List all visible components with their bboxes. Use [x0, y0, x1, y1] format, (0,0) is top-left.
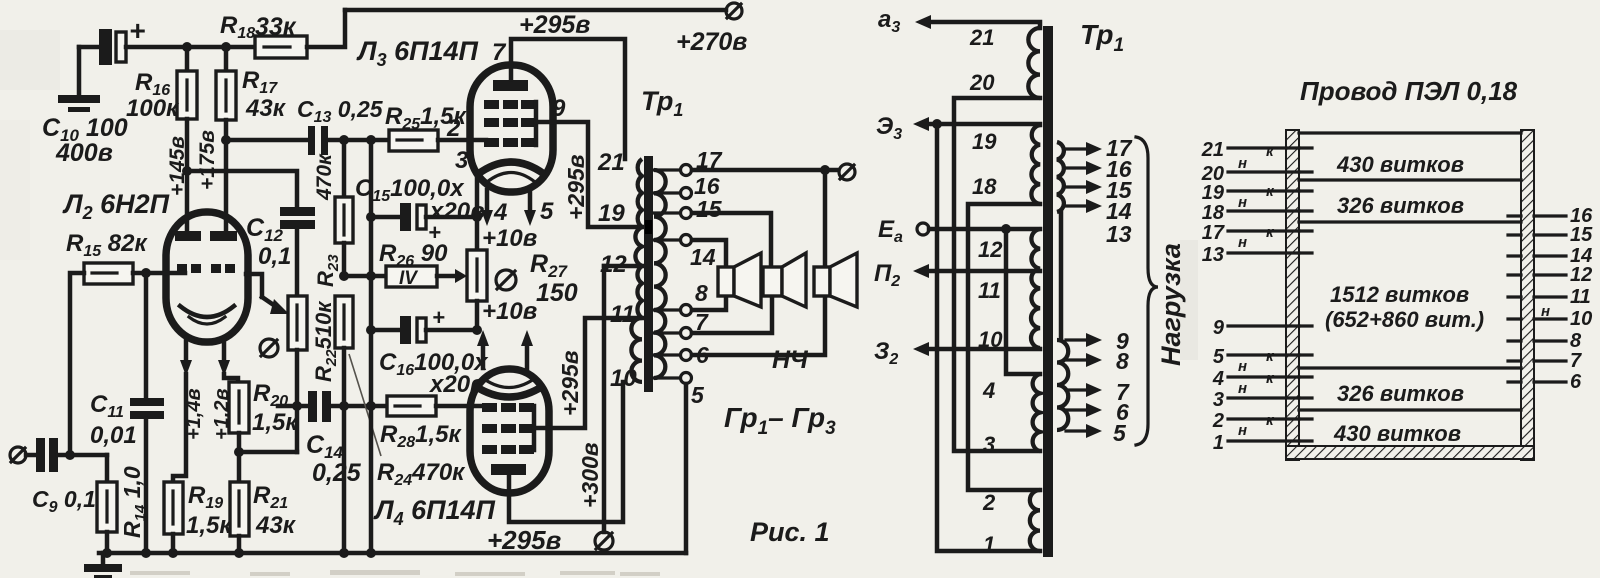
svg-text:1,5к: 1,5к — [252, 409, 299, 436]
svg-text:+145в: +145в — [166, 136, 189, 196]
svg-text:н: н — [1238, 194, 1247, 211]
svg-text:17: 17 — [1202, 222, 1225, 244]
svg-text:н: н — [1541, 303, 1550, 320]
svg-text:+295в: +295в — [557, 350, 583, 416]
wire to speaker3 top — [823, 170, 828, 267]
primary winding section 12 — [635, 227, 642, 266]
svg-text:326 витков: 326 витков — [1337, 193, 1464, 218]
svg-text:11: 11 — [1570, 286, 1591, 308]
svg-text:2: 2 — [982, 490, 996, 515]
wire C9 to R14 — [58, 453, 107, 458]
svg-text:НЧ: НЧ — [772, 346, 809, 374]
C10 value label — [42, 114, 128, 167]
node input — [65, 450, 75, 460]
svg-text:43к: 43к — [255, 512, 297, 539]
svg-text:+270в: +270в — [676, 28, 747, 56]
svg-text:н: н — [1238, 380, 1247, 397]
svg-text:14: 14 — [690, 244, 716, 270]
left lead numbers — [1201, 139, 1225, 454]
resistor R23 — [313, 140, 353, 287]
svg-text:5: 5 — [540, 198, 554, 225]
svg-text:21: 21 — [1201, 139, 1224, 161]
resistor R24 — [335, 296, 466, 553]
svg-text:0,01: 0,01 — [90, 422, 137, 449]
coil section 4-3 — [1033, 374, 1040, 451]
svg-text:+295в: +295в — [519, 11, 590, 39]
secondary winding upper — [654, 170, 666, 240]
wire C12 branch from anode — [187, 171, 297, 207]
node cathode bottom — [472, 325, 482, 335]
wire to C14 — [278, 404, 309, 409]
svg-text:C13 0,25: C13 0,25 — [297, 96, 384, 126]
svg-text:8: 8 — [1570, 330, 1582, 352]
node C12 tap — [182, 166, 192, 176]
svg-text:11: 11 — [978, 278, 1001, 303]
wire 14 to speaker1 — [692, 240, 726, 267]
node R23 bottom — [339, 271, 349, 281]
capacitor C12 — [246, 207, 315, 270]
svg-text:400в: 400в — [55, 139, 113, 167]
coil section 2-1 — [1030, 490, 1040, 551]
potentiometer R27 — [467, 172, 578, 330]
svg-text:33к: 33к — [255, 13, 297, 41]
top supply rail +270v — [345, 8, 726, 13]
test point R27 — [496, 270, 516, 290]
svg-text:1,5к: 1,5к — [186, 512, 233, 539]
node C13 tap — [221, 135, 231, 145]
svg-text:+295в: +295в — [487, 525, 562, 555]
svg-text:9: 9 — [552, 95, 566, 122]
svg-text:Провод ПЭЛ 0,18: Провод ПЭЛ 0,18 — [1300, 76, 1518, 106]
svg-text:13: 13 — [1106, 221, 1132, 247]
svg-text:8: 8 — [695, 280, 708, 306]
resistor R21 — [230, 452, 297, 553]
ground symbol — [84, 553, 122, 578]
wire C13 branch — [226, 138, 308, 143]
wire R17 anode lead — [224, 120, 229, 234]
svg-text:5: 5 — [1113, 420, 1127, 446]
wire C10 to R18 — [126, 45, 255, 50]
svg-text:19: 19 — [972, 129, 997, 154]
wire bias node — [344, 274, 386, 279]
inner wall ticks right — [1508, 216, 1521, 382]
bobbin left wall — [1286, 130, 1299, 460]
coil section 21-20 — [1028, 28, 1040, 98]
svg-text:19: 19 — [598, 200, 625, 227]
svg-text:IV: IV — [399, 268, 418, 289]
speaker Гр2 — [763, 253, 806, 307]
secondary arrows bottom — [1066, 333, 1102, 438]
svg-text:5: 5 — [691, 382, 705, 408]
wire R25 to grid pin2 — [438, 138, 486, 143]
rail nodes — [102, 548, 112, 558]
input terminal — [10, 447, 26, 463]
secondary cluster top — [1057, 142, 1064, 212]
wire 6 to speaker3 bottom — [692, 296, 825, 355]
terminal +270v — [676, 3, 747, 56]
svg-text:н: н — [1238, 358, 1247, 375]
svg-text:R281,5к: R281,5к — [380, 421, 463, 451]
svg-text:21: 21 — [597, 149, 625, 176]
primary winding section 11 — [637, 266, 642, 318]
cathode arrows Л3 — [481, 190, 554, 226]
svg-text:+175в: +175в — [196, 130, 219, 190]
svg-text:3: 3 — [455, 147, 469, 174]
wire input riser — [70, 273, 84, 455]
potentiometer R22 — [288, 296, 307, 350]
ground at C10 — [58, 47, 100, 112]
svg-text:1512 витков: 1512 витков — [1330, 282, 1469, 307]
wire 17 to output terminal — [692, 168, 838, 173]
svg-text:3: 3 — [1213, 389, 1224, 411]
svg-text:7: 7 — [1570, 350, 1582, 372]
wire R18 to top rail — [307, 10, 345, 47]
lead Ea — [878, 216, 1040, 374]
test point near R22 — [260, 339, 278, 357]
capacitor C11 — [90, 273, 164, 553]
terminal +300v — [595, 532, 613, 550]
svg-text:Л3 6П14П: Л3 6П14П — [356, 36, 479, 70]
svg-text:C9 0,1: C9 0,1 — [32, 486, 96, 516]
right lead numbers — [1570, 205, 1593, 393]
node C14 left — [292, 401, 302, 411]
svg-text:15: 15 — [696, 196, 723, 222]
svg-text:Нагрузка: Нагрузка — [1156, 243, 1186, 366]
svg-text:+: + — [432, 305, 445, 330]
secondary winding lower — [654, 310, 665, 378]
svg-text:4: 4 — [982, 378, 995, 403]
svg-text:12: 12 — [978, 237, 1003, 262]
anode lead Л3 pin7 — [511, 39, 625, 159]
svg-text:+1,4в: +1,4в — [183, 388, 205, 440]
svg-text:Л2 6Н2П: Л2 6Н2П — [62, 189, 170, 223]
transformer core — [644, 156, 653, 392]
output terminal — [839, 164, 855, 180]
wire C13 to R25 — [328, 138, 389, 143]
cathode arrows Л4 — [477, 330, 533, 368]
wire 5 to ground rail — [684, 384, 689, 553]
svg-text:2: 2 — [446, 115, 461, 142]
svg-text:150: 150 — [536, 279, 578, 307]
bobbin right wall — [1521, 130, 1534, 460]
cathode arrow left — [173, 338, 192, 482]
wire C12 to pot R22 — [295, 229, 300, 296]
svg-text:12: 12 — [1570, 264, 1592, 286]
svg-text:4: 4 — [1212, 368, 1224, 390]
right leads — [1534, 216, 1566, 382]
resistor R15 — [84, 263, 133, 284]
screen lead Л4 — [534, 318, 642, 428]
svg-text:100к: 100к — [126, 95, 180, 122]
anode lead Л4 — [509, 382, 623, 522]
svg-text:6: 6 — [1570, 371, 1582, 393]
section lines — [1299, 131, 1521, 134]
screen lead Л3 pin9 — [536, 122, 642, 227]
svg-text:R15 82к: R15 82к — [66, 230, 149, 260]
wire 15 to speaker2 — [692, 213, 771, 267]
cathode arrow right — [218, 338, 238, 382]
node R17 top — [221, 42, 231, 52]
wire 20 end — [954, 98, 1040, 451]
lead З2 — [874, 338, 1040, 368]
capacitor C10 — [79, 15, 145, 65]
node R16 top — [182, 42, 192, 52]
capacitor C15 — [355, 175, 485, 245]
wire cathode2 to R22 branch — [239, 450, 297, 455]
left bias rail — [369, 140, 374, 553]
tube Л4 6П14П — [373, 369, 562, 555]
svg-text:3: 3 — [983, 432, 995, 457]
lead П2 — [874, 260, 1040, 290]
centre tap +300v wire — [604, 264, 642, 269]
node cathode top — [472, 212, 482, 222]
capacitor C13 — [297, 96, 384, 155]
resistor R16 — [126, 47, 197, 122]
svg-text:11: 11 — [610, 301, 635, 328]
wire 18 end — [968, 204, 1040, 490]
svg-text:21: 21 — [969, 25, 994, 50]
wire 13 down — [1059, 212, 1064, 340]
svg-text:326 витков: 326 витков — [1337, 381, 1464, 406]
resistor R20 — [229, 380, 299, 452]
wire R16 anode lead — [185, 119, 190, 234]
resistor R19 — [164, 482, 233, 553]
ground rail bottom — [99, 551, 686, 556]
svg-text:7: 7 — [492, 39, 507, 66]
primary winding section 21-19 — [638, 159, 642, 227]
secondary arrows top — [1066, 142, 1102, 213]
resistor R28 — [380, 396, 484, 451]
node R23 top — [339, 135, 349, 145]
wire pot bottom — [295, 350, 300, 452]
wire 7 to speaker2 bottom — [692, 296, 772, 333]
svg-text:+10в: +10в — [482, 298, 537, 325]
inner wall ticks left — [1299, 148, 1312, 441]
node cathode2 — [234, 447, 244, 457]
svg-text:Л4 6П14П: Л4 6П14П — [373, 495, 496, 529]
node C11 tap — [141, 268, 151, 278]
left leads — [1228, 148, 1299, 441]
core bar middle diagram — [1043, 26, 1053, 557]
primary winding section 10 — [631, 318, 642, 382]
svg-text:+295в: +295в — [563, 154, 589, 220]
svg-text:R24470к: R24470к — [377, 459, 466, 489]
wiper wire from triode grid2 — [246, 274, 289, 314]
resistor R25 — [385, 103, 468, 151]
bobbin bottom — [1286, 446, 1534, 459]
node rail tap — [366, 135, 376, 145]
svg-text:9: 9 — [1213, 317, 1225, 339]
svg-text:10: 10 — [1570, 308, 1592, 330]
svg-text:(652+860 вит.): (652+860 вит.) — [1325, 307, 1484, 332]
brace Нагрузка — [1136, 137, 1158, 445]
svg-text:+10в: +10в — [482, 225, 537, 252]
capacitor C16 — [371, 305, 489, 398]
node R24 bottom — [339, 401, 349, 411]
svg-text:Рис. 1: Рис. 1 — [750, 517, 830, 547]
secondary cluster bottom — [1057, 340, 1068, 430]
svg-text:5: 5 — [1213, 346, 1225, 368]
svg-text:10: 10 — [610, 365, 637, 392]
svg-text:1: 1 — [983, 532, 995, 557]
svg-text:19: 19 — [1202, 182, 1225, 204]
capacitor C14 — [306, 391, 362, 487]
svg-text:18: 18 — [1202, 202, 1225, 224]
resistor R17 — [216, 47, 287, 122]
svg-text:+300в: +300в — [577, 442, 603, 508]
svg-text:1: 1 — [1213, 432, 1224, 454]
secondary winding middle — [654, 240, 666, 310]
svg-text:43к: 43к — [245, 95, 287, 122]
tube Л2 6Н2П — [62, 189, 248, 342]
lead Э3 — [876, 113, 1040, 143]
svg-text:20: 20 — [969, 70, 995, 95]
svg-text:13: 13 — [1202, 244, 1224, 266]
resistor R26 box IV — [386, 266, 467, 289]
wire R15 to grid — [133, 271, 185, 276]
node rail y276 — [366, 271, 376, 281]
coil section 19-18 — [1031, 125, 1040, 204]
speaker Гр1 — [718, 253, 761, 307]
svg-text:н: н — [1238, 155, 1247, 172]
svg-text:4: 4 — [493, 199, 507, 226]
wire 8 to speaker1 bottom — [692, 296, 726, 310]
coil section 12-11-10 — [1031, 229, 1040, 348]
svg-text:18: 18 — [972, 174, 997, 199]
svg-text:430 витков: 430 витков — [1333, 421, 1461, 446]
svg-text:430 витков: 430 витков — [1336, 152, 1464, 177]
lead a3 — [878, 6, 1040, 36]
secondary terminals — [654, 165, 692, 384]
resistor R18 — [220, 12, 307, 58]
svg-text:0,1: 0,1 — [258, 243, 291, 270]
н к marks — [1238, 143, 1275, 439]
svg-text:12: 12 — [600, 251, 627, 278]
svg-text:0,25: 0,25 — [312, 459, 362, 487]
wire 1 end riser — [937, 124, 1040, 551]
speaker Гр3 НЧ — [814, 253, 857, 307]
svg-text:10: 10 — [978, 327, 1003, 352]
svg-text:15: 15 — [1570, 224, 1593, 246]
svg-text:8: 8 — [1116, 348, 1129, 374]
capacitor C9 — [26, 438, 96, 516]
svg-text:н: н — [1238, 234, 1247, 251]
resistor R14 — [97, 455, 149, 553]
wire C14 to R28 — [331, 404, 387, 409]
svg-text:+: + — [129, 15, 145, 46]
svg-text:2: 2 — [1212, 410, 1224, 432]
svg-text:470к: 470к — [313, 153, 336, 201]
tube Л3 6П14П — [356, 36, 553, 192]
svg-text:н: н — [1238, 422, 1247, 439]
